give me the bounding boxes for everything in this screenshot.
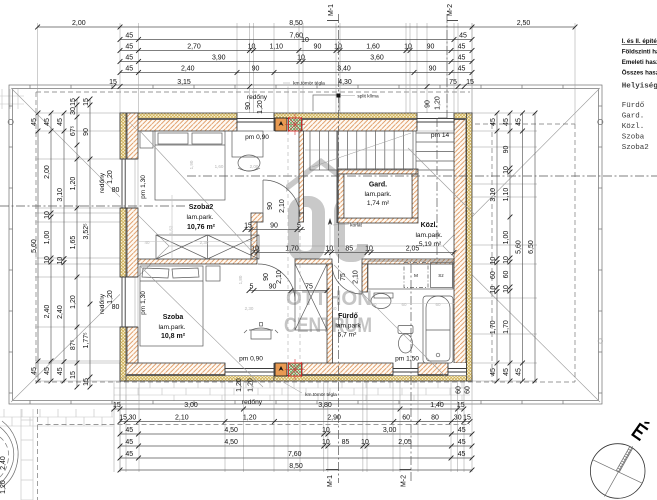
- washbasin: [371, 294, 391, 309]
- svg-text:2,70: 2,70: [187, 43, 201, 50]
- Furdo left wall V2: [327, 264, 333, 363]
- svg-text:7,60: 7,60: [288, 451, 302, 458]
- Furdo door jamb stub: [362, 264, 368, 292]
- svg-text:M-1: M-1: [328, 4, 335, 16]
- svg-text:3,00: 3,00: [184, 402, 198, 409]
- compass needle hatched half: [616, 447, 632, 472]
- section line M-1: [338, 14, 340, 483]
- small shelf under niche: [374, 293, 393, 298]
- svg-text:45: 45: [44, 367, 51, 375]
- dashed outline of ground floor below: [36, 91, 470, 93]
- svg-text:15: 15: [463, 414, 471, 421]
- stair cut diagonal: [312, 133, 411, 167]
- svg-text:pm 1,30: pm 1,30: [140, 291, 147, 315]
- faint ground-floor underlay dims: [138, 160, 454, 311]
- chimney top (km. tomor tegla): [275, 114, 305, 135]
- svg-text:45: 45: [458, 451, 466, 458]
- interior wall H1 left (Szoba2 closet / Szoba): [138, 259, 257, 264]
- svg-text:Szoba: Szoba: [163, 314, 184, 321]
- svg-text:80: 80: [112, 304, 120, 311]
- svg-text:75: 75: [449, 79, 457, 86]
- svg-text:redőny: redőny: [247, 94, 268, 101]
- svg-text:30: 30: [454, 414, 462, 421]
- svg-text:lam.park.: lam.park.: [158, 324, 185, 331]
- svg-text:60: 60: [490, 271, 497, 279]
- right info text block: [622, 38, 657, 152]
- svg-text:2,30: 2,30: [245, 306, 254, 311]
- svg-text:5,60: 5,60: [516, 240, 523, 254]
- window W5 bottom wall corner: [448, 363, 467, 376]
- svg-text:45: 45: [503, 118, 510, 126]
- svg-text:60: 60: [401, 302, 407, 307]
- interior dimension chain y=252: [251, 246, 457, 255]
- svg-text:45: 45: [125, 65, 133, 72]
- WC: [398, 326, 413, 354]
- svg-text:Szoba2: Szoba2: [622, 144, 649, 152]
- svg-text:45: 45: [459, 32, 467, 39]
- svg-text:2,00: 2,00: [44, 165, 51, 179]
- svg-text:split klíma: split klíma: [357, 94, 379, 100]
- svg-text:8,50: 8,50: [289, 463, 303, 470]
- window W2 top wall right: [417, 113, 454, 131]
- watermark logo Otthon Centrum: [286, 158, 368, 262]
- stair walk arrow (korlat): [329, 222, 331, 258]
- svg-text:2,00: 2,00: [72, 20, 86, 27]
- svg-text:Emeleti haszno: Emeleti haszno: [622, 59, 657, 66]
- svg-text:Fürdő: Fürdő: [338, 313, 358, 320]
- svg-text:90: 90: [425, 100, 432, 108]
- window W4 bottom wall bathroom: [393, 363, 418, 376]
- svg-text:1,20: 1,20: [0, 480, 7, 494]
- svg-text:15: 15: [70, 98, 77, 106]
- closet with X next to Furdo wall: [295, 264, 327, 330]
- svg-text:1,60: 1,60: [366, 43, 380, 50]
- svg-text:15: 15: [70, 371, 77, 379]
- svg-text:pm 0,90: pm 0,90: [239, 356, 263, 363]
- svg-text:90: 90: [83, 128, 90, 136]
- svg-text:redőny: redőny: [99, 293, 106, 314]
- svg-text:45: 45: [31, 118, 38, 126]
- svg-text:45: 45: [57, 118, 64, 126]
- svg-text:1,20: 1,20: [236, 378, 243, 392]
- stair railing dark line: [336, 131, 338, 223]
- svg-text:lam.park: lam.park: [335, 323, 361, 330]
- svg-text:5: 5: [297, 223, 301, 230]
- svg-text:45: 45: [516, 118, 523, 126]
- svg-text:3,10: 3,10: [490, 188, 497, 202]
- svg-text:pm 0,90: pm 0,90: [245, 134, 269, 141]
- compass north symbol: [590, 444, 645, 499]
- svg-text:90: 90: [245, 102, 252, 110]
- svg-text:3,40: 3,40: [337, 65, 351, 72]
- door Szoba2 (90): [262, 180, 264, 218]
- section line M-2 (jogged): [446, 14, 448, 118]
- svg-text:60: 60: [371, 302, 377, 307]
- bed Szoba: [140, 266, 220, 346]
- interior wall V1 (Szoba2 / stair hall): [299, 131, 304, 213]
- svg-text:3,90: 3,90: [212, 54, 226, 61]
- svg-text:45: 45: [125, 32, 133, 39]
- svg-text:15: 15: [119, 414, 127, 421]
- svg-text:M-1: M-1: [327, 475, 334, 487]
- svg-text:5,60: 5,60: [31, 239, 38, 253]
- svg-text:45: 45: [31, 367, 38, 375]
- svg-text:M-2: M-2: [401, 475, 408, 487]
- svg-text:2,05: 2,05: [398, 439, 412, 446]
- svg-text:2,40: 2,40: [44, 305, 51, 319]
- svg-text:85: 85: [342, 439, 350, 446]
- svg-text:45: 45: [458, 65, 466, 72]
- svg-text:1,20: 1,20: [107, 170, 114, 184]
- svg-text:1,80: 1,80: [238, 275, 243, 284]
- svg-text:45: 45: [458, 43, 466, 50]
- room diagonal Szoba: [140, 266, 263, 387]
- svg-text:2,10: 2,10: [276, 270, 283, 284]
- svg-text:redőny: redőny: [99, 172, 106, 193]
- svg-text:Közl.: Közl.: [421, 222, 438, 229]
- svg-text:2,10: 2,10: [175, 414, 189, 421]
- svg-text:1,20: 1,20: [70, 295, 77, 309]
- svg-text:45: 45: [458, 54, 466, 61]
- desk and chair Szoba2: [232, 131, 263, 171]
- svg-text:1,10: 1,10: [503, 188, 510, 202]
- chimney bottom: [275, 359, 305, 380]
- svg-text:redőny: redőny: [242, 399, 263, 406]
- terrace paving bottom-left: [0, 409, 113, 500]
- svg-text:M: M: [414, 273, 418, 279]
- svg-text:3,10: 3,10: [57, 188, 64, 202]
- svg-text:40: 40: [144, 240, 150, 245]
- svg-text:pm 1,50: pm 1,50: [395, 356, 419, 363]
- svg-text:3,15: 3,15: [177, 79, 191, 86]
- svg-text:1,00: 1,00: [44, 231, 51, 245]
- svg-text:75: 75: [305, 284, 313, 291]
- svg-text:45: 45: [458, 427, 466, 434]
- svg-text:1,70: 1,70: [285, 246, 299, 253]
- svg-text:90: 90: [427, 43, 435, 50]
- bottom dimension chains: [111, 402, 474, 473]
- svg-text:5,19 m²: 5,19 m²: [419, 241, 442, 248]
- svg-text:5: 5: [250, 284, 254, 291]
- door Furdo (75): [361, 264, 363, 294]
- window WL1 left wall upper: [120, 159, 138, 208]
- dimension extension lines top: [35, 23, 575, 472]
- svg-text:2,10: 2,10: [279, 199, 286, 213]
- Szoba2 door wall stub: [251, 213, 263, 222]
- right dimension chains (rotated): [490, 111, 537, 384]
- driveway curb arcs bottom-left: [1, 421, 18, 488]
- svg-text:1,20: 1,20: [243, 414, 257, 421]
- svg-text:90: 90: [252, 65, 260, 72]
- svg-text:90: 90: [503, 146, 510, 154]
- svg-text:90: 90: [267, 202, 274, 210]
- svg-text:2,10: 2,10: [353, 270, 360, 284]
- svg-text:Sz: Sz: [438, 273, 444, 279]
- svg-text:pm 14: pm 14: [431, 132, 450, 139]
- svg-text:pm 1,30: pm 1,30: [140, 175, 147, 199]
- svg-text:korlát: korlát: [350, 223, 362, 229]
- svg-text:10,8 m²: 10,8 m²: [161, 333, 186, 340]
- staircase right flight: [416, 131, 454, 175]
- svg-text:4,50: 4,50: [224, 439, 238, 446]
- svg-text:Összes haszn: Összes haszn: [622, 70, 657, 77]
- north letter E with accent (vector): [631, 418, 651, 441]
- svg-text:1,90: 1,90: [189, 160, 194, 169]
- svg-text:2,50: 2,50: [517, 20, 531, 27]
- interior dim 5/90/75 at Szoba door: [247, 284, 330, 293]
- svg-text:5,7 m²: 5,7 m²: [338, 332, 357, 339]
- room diagonal Furdo: [334, 265, 446, 377]
- left wall: [127, 113, 138, 159]
- svg-text:2,40: 2,40: [57, 305, 64, 319]
- diagonal Kozl: [408, 148, 474, 214]
- room diagonal Szoba2: [140, 131, 258, 258]
- chimney axis dashed: [287, 131, 289, 363]
- svg-text:10: 10: [301, 37, 309, 44]
- svg-text:30: 30: [129, 414, 137, 421]
- svg-text:45: 45: [57, 367, 64, 375]
- svg-text:Földszinti haszn: Földszinti haszn: [622, 49, 657, 56]
- svg-text:85: 85: [345, 246, 353, 253]
- svg-text:3,80: 3,80: [318, 402, 332, 409]
- svg-text:2,40: 2,40: [181, 65, 195, 72]
- svg-text:15: 15: [113, 402, 121, 409]
- interior wall H1 right (hall / Furdo zone): [295, 259, 332, 264]
- svg-text:90: 90: [263, 273, 270, 281]
- dimension extension lines right: [472, 112, 537, 114]
- svg-text:2,30: 2,30: [200, 240, 209, 245]
- svg-text:2,00: 2,00: [250, 164, 259, 169]
- svg-text:1,65: 1,65: [70, 236, 77, 250]
- building exterior walls: [120, 113, 472, 381]
- svg-text:Közl.: Közl.: [622, 123, 645, 131]
- svg-text:1,20: 1,20: [70, 177, 77, 191]
- svg-text:60: 60: [503, 271, 510, 279]
- svg-text:1,20: 1,20: [248, 378, 255, 392]
- svg-text:45: 45: [125, 439, 133, 446]
- split klima box: [313, 95, 339, 111]
- svg-text:1,70: 1,70: [490, 320, 497, 334]
- svg-text:1,10: 1,10: [269, 43, 283, 50]
- svg-text:90: 90: [270, 223, 278, 230]
- svg-text:lam.park.: lam.park.: [186, 214, 213, 221]
- svg-text:15: 15: [83, 98, 90, 106]
- wall corner miters: [120, 113, 138, 131]
- horizontal axis dash-dot: [187, 175, 657, 177]
- svg-text:Helyiség: Helyiség: [622, 83, 657, 91]
- svg-text:45: 45: [125, 54, 133, 61]
- stove (pot symbol): [244, 323, 278, 340]
- bathtub: [423, 296, 453, 363]
- washer/dryer niche counter: [368, 261, 453, 289]
- svg-text:15: 15: [83, 378, 90, 386]
- svg-text:1,52: 1,52: [169, 225, 174, 234]
- svg-text:Fürdő: Fürdő: [622, 102, 645, 110]
- svg-text:45: 45: [125, 427, 133, 434]
- left dimension chains (rotated): [31, 97, 92, 390]
- svg-text:45: 45: [503, 368, 510, 376]
- svg-text:1,40: 1,40: [430, 402, 444, 409]
- svg-text:4,30: 4,30: [338, 79, 352, 86]
- svg-text:10,76 m²: 10,76 m²: [187, 224, 216, 231]
- small circle markers on eaves: [8, 119, 13, 124]
- svg-text:2,40: 2,40: [0, 456, 7, 470]
- svg-text:90: 90: [429, 65, 437, 72]
- window WL2 left wall lower: [120, 277, 138, 327]
- svg-text:I. és II. építési ü: I. és II. építési ü: [622, 38, 657, 45]
- svg-text:15: 15: [109, 79, 117, 86]
- svg-text:60: 60: [435, 302, 441, 307]
- right wall: [454, 120, 466, 364]
- window W1 top wall: [237, 113, 274, 131]
- svg-text:8,50: 8,50: [289, 20, 303, 27]
- svg-text:15: 15: [244, 223, 252, 230]
- wardrobe with X in Szoba2: [156, 235, 259, 259]
- svg-text:80: 80: [112, 187, 120, 194]
- svg-text:45: 45: [125, 43, 133, 50]
- svg-text:60: 60: [402, 414, 410, 421]
- svg-text:15: 15: [457, 402, 465, 409]
- door Szoba (90): [294, 264, 296, 301]
- svg-text:M-2: M-2: [447, 4, 454, 16]
- dimension extension lines bottom: [113, 381, 115, 472]
- svg-text:4,50: 4,50: [224, 427, 238, 434]
- svg-text:3,00: 3,00: [383, 427, 397, 434]
- roof eave outline double rectangle: [9, 85, 602, 404]
- svg-text:2,05: 2,05: [406, 246, 420, 253]
- bottom wall: [120, 363, 225, 375]
- interior dim 15/90/5 above Szoba2 door: [243, 223, 305, 232]
- svg-text:3,60: 3,60: [370, 54, 384, 61]
- svg-text:Gard.: Gard.: [622, 113, 645, 121]
- svg-text:1,70: 1,70: [503, 320, 510, 334]
- svg-text:45: 45: [490, 368, 497, 376]
- stub wall down to H1: [251, 222, 257, 259]
- svg-text:6,50: 6,50: [528, 240, 535, 254]
- svg-text:Szoba2: Szoba2: [189, 204, 214, 211]
- svg-text:60: 60: [465, 386, 472, 394]
- dimension extension lines left: [35, 112, 120, 114]
- svg-text:1,20: 1,20: [435, 96, 442, 110]
- svg-text:1,00: 1,00: [503, 231, 510, 245]
- svg-text:2,90: 2,90: [327, 414, 341, 421]
- svg-text:1,20: 1,20: [257, 100, 264, 114]
- svg-text:1,74 m²: 1,74 m²: [367, 200, 390, 207]
- hip roof diagonals and ridge: [11, 88, 169, 246]
- svg-text:90: 90: [314, 43, 322, 50]
- svg-text:15: 15: [466, 79, 474, 86]
- svg-text:45: 45: [44, 118, 51, 126]
- svg-text:45: 45: [516, 368, 523, 376]
- svg-text:80: 80: [431, 414, 439, 421]
- Gard walls: [338, 169, 418, 174]
- svg-text:1,60: 1,60: [215, 164, 224, 169]
- staircase upper flight: [305, 131, 413, 170]
- svg-text:45: 45: [458, 439, 466, 446]
- svg-text:60: 60: [331, 306, 337, 311]
- svg-text:45: 45: [125, 451, 133, 458]
- svg-text:lam.park.: lam.park.: [415, 232, 442, 239]
- svg-text:km.tömör tégla: km.tömör tégla: [305, 392, 337, 398]
- svg-text:60: 60: [456, 386, 463, 394]
- window W3 bottom wall left: [225, 363, 274, 376]
- svg-text:lam.park.: lam.park.: [364, 191, 391, 198]
- top wall: [120, 120, 237, 132]
- svg-text:Szoba: Szoba: [622, 134, 645, 142]
- svg-text:Gard.: Gard.: [369, 182, 387, 189]
- svg-text:1,20: 1,20: [107, 290, 114, 304]
- svg-text:km.tömör tégla: km.tömör tégla: [293, 81, 325, 87]
- svg-text:45: 45: [490, 118, 497, 126]
- svg-text:30: 30: [70, 107, 77, 115]
- top dimension chains: [35, 20, 577, 89]
- bed Szoba2: [140, 131, 225, 200]
